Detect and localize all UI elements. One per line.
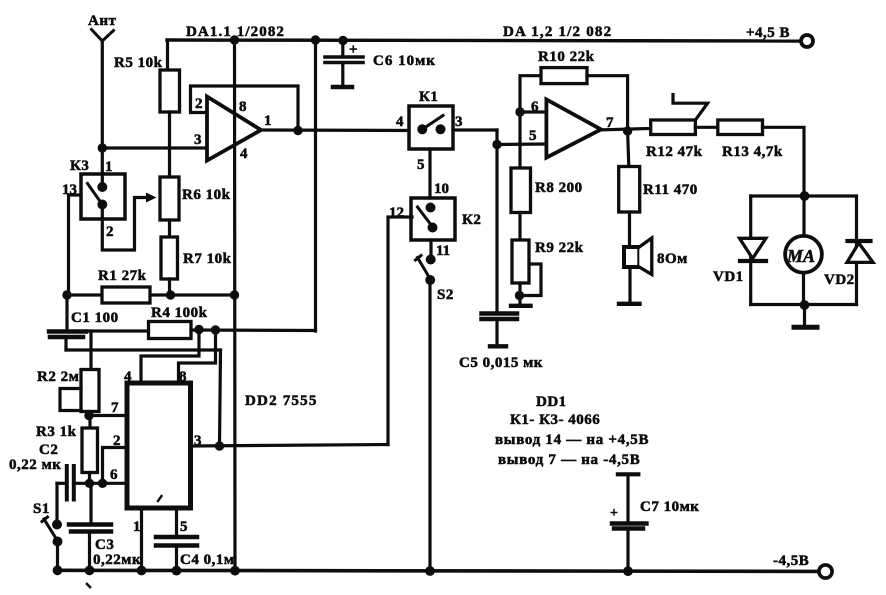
antenna symbol (92, 30, 114, 42)
capacitor C2 (67, 466, 74, 500)
wire R2 to R3 (88, 412, 91, 429)
svg-text:С7 10мк: С7 10мк (640, 499, 699, 515)
wire riser rail to R4 row (314, 40, 317, 331)
svg-text:0,22мк: 0,22мк (93, 552, 141, 568)
diode VD2 (848, 239, 871, 243)
wire R12-R13 (695, 126, 717, 129)
svg-text:2: 2 (113, 433, 121, 449)
wire R4 row right (191, 328, 316, 332)
node R4/pin8 riser (211, 325, 220, 334)
resistor R6 (160, 177, 179, 220)
svg-text:С3: С3 (95, 537, 114, 553)
node rail/DD2 pin1 (137, 566, 147, 576)
svg-text:11: 11 (436, 243, 450, 259)
resistor R1 (102, 287, 150, 303)
svg-text:R7 10k: R7 10k (183, 251, 232, 267)
node: rail junction pin8 DA1.1 (230, 35, 239, 44)
wire pin2 (103, 448, 128, 484)
svg-text:5: 5 (180, 519, 188, 535)
switch S2 lever (418, 258, 431, 280)
wire R7 down (168, 279, 171, 295)
svg-text:DA1.1 1/2082: DA1.1 1/2082 (186, 24, 285, 40)
IC DD2 box (127, 383, 191, 508)
svg-text:5: 5 (529, 128, 537, 144)
svg-text:5: 5 (417, 157, 425, 173)
node rail/S2 (425, 566, 435, 576)
node rail/C3 (85, 566, 95, 576)
svg-text:R5 10k: R5 10k (114, 55, 163, 71)
wire pin4 riser (141, 330, 199, 384)
svg-text:К1- К3- 4066: К1- К3- 4066 (510, 412, 600, 428)
pin number labels (62, 96, 614, 535)
svg-text:R8 200: R8 200 (535, 180, 583, 196)
svg-text:S1: S1 (33, 501, 50, 517)
node pin5 row (492, 140, 501, 149)
capacitor C6 (325, 41, 363, 88)
resistor R4 (149, 322, 192, 339)
wire pin8 riser (179, 330, 216, 383)
svg-text:8Ом: 8Ом (657, 251, 688, 267)
wire R10 loop left (520, 76, 541, 112)
wire R8 riser (518, 112, 521, 168)
R9 ground bar (511, 304, 531, 308)
S2 lever tick (416, 256, 422, 261)
wire DA1.1 feedback loop (191, 86, 299, 131)
K1 lever (422, 116, 443, 130)
svg-text:6: 6 (531, 99, 539, 115)
capacitor C1 (49, 295, 86, 350)
wire R11 riser (628, 131, 629, 167)
wire R5 to R6 (168, 112, 171, 177)
svg-text:3: 3 (194, 433, 202, 449)
node: rail junction C6 (338, 36, 347, 45)
svg-text:12: 12 (389, 205, 404, 221)
svg-text:7: 7 (606, 115, 614, 131)
svg-text:R13 4,7k: R13 4,7k (722, 144, 783, 160)
wire K1 pin3 vertical to C5 (495, 130, 498, 312)
S1 upper contact dot (52, 520, 62, 530)
svg-text:1: 1 (264, 113, 272, 129)
relay K1 box (409, 106, 453, 149)
node pin3 riser (215, 441, 224, 450)
wire R6-R7 (168, 220, 171, 237)
op-amp DA1.2 (546, 99, 601, 157)
svg-text:7: 7 (111, 400, 119, 416)
speaker ground bar (619, 302, 640, 306)
wire R8-R9 (518, 213, 521, 241)
svg-text:R3 1k: R3 1k (36, 424, 77, 440)
wire pin3 row (102, 146, 207, 149)
svg-text:вывод 7 — на -4,5В: вывод 7 — на -4,5В (498, 452, 640, 468)
wire K3 pin2 to R6 wiper (102, 198, 149, 251)
relay K2 box (411, 198, 455, 240)
wire DA1.1 output to K1 (261, 128, 409, 132)
wire pin6 row (76, 482, 127, 485)
svg-text:4: 4 (124, 369, 132, 385)
svg-text:DD1: DD1 (536, 394, 567, 410)
wire DD2 pin3 row (191, 445, 389, 447)
DD2 inner tick (158, 496, 162, 501)
wire C2 left (57, 482, 64, 485)
K1 pin 3 contact dot (436, 124, 446, 134)
diode VD1 (740, 238, 766, 258)
resistor R11 (619, 167, 640, 213)
relay K3 box (81, 174, 125, 219)
wire K1 pin3 out (453, 128, 497, 131)
svg-text:МА: МА (786, 246, 815, 266)
resistor R10 (541, 68, 587, 84)
svg-text:13: 13 (62, 182, 77, 198)
svg-text:1: 1 (133, 519, 141, 535)
op-amp DA1.1 (207, 97, 261, 161)
svg-text:С2: С2 (39, 442, 58, 458)
S2 upper contact dot (426, 255, 436, 265)
stray mark below rail (87, 584, 90, 587)
wire pin7 row (89, 414, 127, 417)
svg-text:10: 10 (434, 181, 449, 197)
svg-text:4: 4 (396, 114, 404, 130)
wire S2 down to rail (428, 280, 431, 570)
wire speaker down (628, 267, 631, 302)
svg-text:VD2: VD2 (824, 272, 855, 288)
wire DA1.2 output (601, 129, 651, 130)
node R4/pin4 riser (194, 325, 203, 334)
+4,5 B terminal (801, 35, 813, 47)
wire R1 row (67, 293, 235, 296)
node rail/S1 (53, 565, 63, 575)
svg-text:С6 10мк: С6 10мк (373, 53, 436, 69)
R9 wiper bracket (519, 264, 541, 296)
S1 lever tick (42, 517, 48, 522)
resistor R9 (512, 240, 529, 283)
svg-text:+: + (610, 506, 618, 521)
-4,5B terminal (819, 565, 832, 578)
node rail/DA1.1 pin4 (230, 566, 240, 576)
wire R9 down (518, 283, 521, 304)
R12 trimmer arrow (673, 95, 708, 121)
svg-text:С4 0,1м: С4 0,1м (180, 552, 235, 568)
wire pin3 riser (220, 350, 221, 446)
svg-text:2: 2 (106, 224, 114, 240)
meter/diode network top (751, 194, 856, 197)
svg-text:2: 2 (195, 96, 203, 112)
ground stub (803, 305, 806, 325)
meter M (802, 196, 805, 236)
K1 pin 4 contact dot (417, 124, 427, 134)
meter/diode network bottom (751, 303, 857, 306)
svg-text:R1 27k: R1 27k (98, 268, 147, 284)
node feedback/output (293, 126, 302, 135)
wire K1 pin5 down to K2 (428, 149, 431, 198)
switch S1 lever (44, 519, 59, 543)
svg-text:-4,5В: -4,5В (773, 553, 809, 569)
K2 lever (418, 207, 434, 228)
K2 pin 10 contact dot (426, 203, 436, 213)
K3 lever (88, 184, 103, 205)
R2 left bracket (60, 389, 81, 411)
VD1 branch (749, 196, 752, 305)
svg-text:8: 8 (239, 99, 247, 115)
wire DA1.2 pin5 row (497, 142, 546, 146)
wire DD2 pin1 (140, 508, 143, 571)
svg-text:К3: К3 (70, 158, 89, 174)
svg-text:8: 8 (179, 369, 187, 385)
svg-text:+: + (349, 42, 358, 58)
K3 pin 2 contact dot (97, 200, 107, 210)
wire pin3 row riser to K2 pin12 (388, 217, 412, 445)
svg-text:R2 2м: R2 2м (37, 369, 79, 385)
wire R13 right and down (763, 127, 805, 196)
svg-text:3: 3 (194, 132, 202, 148)
wire C2 to S1 (55, 483, 58, 524)
node R2/R3/pin7 (84, 411, 93, 420)
svg-text:Ант: Ант (88, 13, 116, 29)
node antenna / pin3 row (98, 143, 107, 152)
node pin2/pin6 row (98, 479, 107, 488)
svg-text:3: 3 (455, 114, 463, 130)
svg-text:К1: К1 (419, 89, 438, 105)
wire S1 to rail (56, 542, 59, 571)
svg-text:S2: S2 (437, 287, 454, 303)
wire antenna down to K3 pin1 (101, 41, 104, 187)
resistor R5 (160, 70, 180, 112)
svg-text:К2: К2 (462, 212, 481, 228)
wire pin8/pin4 vertical (233, 40, 237, 571)
wire R3 down (88, 473, 91, 484)
node rail/C4 (172, 566, 182, 576)
wire line A: C1 bottom to pin3 riser (66, 348, 221, 351)
wire R11 to speaker (628, 212, 631, 247)
svg-text:вывод 14 — на +4,5В: вывод 14 — на +4,5В (495, 432, 649, 448)
top +4.5V rail (167, 40, 800, 41)
S2 lower contact dot (425, 275, 435, 285)
K2 contact dot lower (428, 223, 438, 233)
node R1 left (62, 290, 71, 299)
wire riser to R2 (89, 331, 92, 370)
svg-text:R4 100k: R4 100k (151, 305, 208, 321)
S1 lower contact dot (53, 537, 63, 547)
svg-text:4: 4 (240, 146, 248, 162)
svg-text:VD1: VD1 (713, 269, 744, 285)
svg-text:С5 0,015 мк: С5 0,015 мк (459, 355, 543, 371)
node: rail junction riser x315 (311, 35, 320, 44)
resistor R7 (161, 237, 178, 279)
K3 pin 1 contact dot (97, 182, 107, 192)
VD2 branch (855, 196, 858, 305)
wire DD2 pin5 (175, 508, 178, 535)
wire K2 pin11 (429, 240, 432, 259)
capacitor C5 (482, 314, 518, 347)
bottom -4.5V rail (55, 570, 819, 571)
capacitor C3 (69, 483, 111, 570)
svg-text:R10 22k: R10 22k (538, 49, 595, 65)
svg-text:+4,5 В: +4,5 В (746, 25, 790, 41)
wire rail down to R5 (166, 40, 169, 70)
node output (623, 126, 632, 135)
capacitor C7 (612, 474, 647, 570)
svg-text:1: 1 (105, 159, 113, 175)
node C3 riser (85, 479, 94, 488)
node pin6 (515, 107, 524, 116)
svg-text:R9 22k: R9 22k (535, 240, 584, 256)
node rail/C7 (623, 566, 633, 576)
svg-text:0,22 мк: 0,22 мк (9, 457, 61, 473)
resistor R13 (718, 120, 763, 135)
node R1 row / pin4 vertical (230, 290, 239, 299)
svg-text:DD2 7555: DD2 7555 (245, 393, 318, 409)
svg-text:R6 10k: R6 10k (182, 187, 231, 203)
svg-text:DA 1,2 1/2 082: DA 1,2 1/2 082 (503, 24, 612, 40)
node R1 right (166, 290, 175, 299)
wire DA1.2 pin6 row (520, 110, 546, 113)
R6 wiper arrowhead (146, 193, 157, 203)
svg-text:С1 100: С1 100 (71, 310, 119, 326)
wire R10 loop right (587, 76, 628, 131)
resistor R12 (651, 120, 696, 135)
wire R4 row left (86, 329, 149, 332)
svg-text:R11 470: R11 470 (643, 182, 698, 198)
capacitor C4 (156, 537, 197, 571)
speaker (624, 247, 639, 267)
svg-text:6: 6 (110, 467, 118, 483)
resistor R2 (81, 370, 99, 412)
wire K3 pin13 (69, 195, 82, 295)
resistor R3 (82, 428, 98, 473)
svg-text:R12 47k: R12 47k (646, 144, 703, 160)
resistor R8 (511, 168, 531, 213)
